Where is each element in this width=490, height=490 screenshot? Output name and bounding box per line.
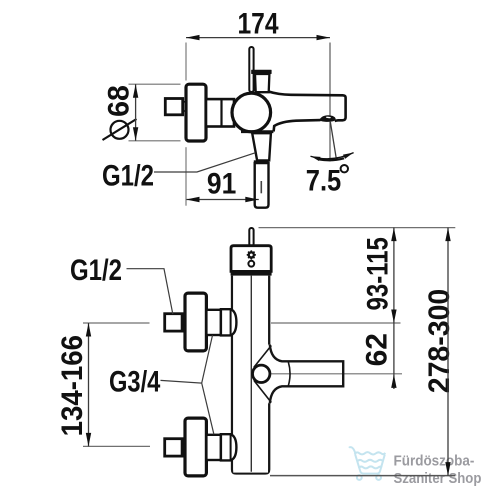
- mid extension line (upper union center): [271, 322, 401, 324]
- spout outline (top view): [269, 92, 346, 132]
- body inner line: [250, 276, 252, 472]
- cap joint band: [231, 271, 272, 275]
- svg-text:278-300: 278-300: [423, 289, 456, 394]
- G3/4 leader fork: [161, 335, 214, 434]
- nipple ticks: [183, 102, 187, 111]
- 7.5 degree angle line: [330, 121, 336, 159]
- shower outlet cone (top view): [252, 133, 271, 160]
- left extension lines 134-166: [83, 322, 150, 324]
- upper union: nut with dome: [221, 309, 237, 335]
- aerator (black lens): [319, 115, 335, 122]
- svg-text:62: 62: [361, 333, 394, 366]
- svg-text:134-166: 134-166: [56, 335, 89, 436]
- diameter symbol: [103, 119, 137, 140]
- dimension Ø68 arrows: [133, 84, 138, 98]
- wall escutcheon (top view): [186, 84, 206, 141]
- dimension 174 arrows: [186, 35, 200, 40]
- svg-text:7.5: 7.5: [306, 164, 341, 197]
- temperature gear dot: [247, 250, 256, 259]
- svg-text:93-115: 93-115: [360, 237, 394, 310]
- diverter knob flange: [251, 70, 271, 74]
- dimension 91 arrows: [186, 197, 200, 202]
- svg-text:G3/4: G3/4: [109, 365, 160, 398]
- watermark bathtub icon: [349, 447, 385, 480]
- junction arc: [288, 362, 290, 386]
- G1/2 leader (top view): [154, 153, 255, 172]
- cone slant lines: [254, 346, 271, 368]
- svg-text:Szaniter Shop: Szaniter Shop: [393, 469, 481, 486]
- cone step band: [254, 160, 269, 163]
- upper union: cylinder: [206, 310, 221, 335]
- lower union: nut with dome: [221, 434, 237, 460]
- svg-text:68: 68: [103, 85, 136, 117]
- lower union: escutcheon: [185, 418, 206, 476]
- dimension Ø68 lines: [129, 84, 181, 141]
- extension line below escutcheon: [185, 147, 187, 206]
- svg-text:G1/2: G1/2: [70, 252, 122, 286]
- shower outlet cylinder (top view): [255, 163, 269, 208]
- svg-text:91: 91: [207, 166, 236, 200]
- body column: [232, 276, 269, 474]
- cylinder divider line: [220, 99, 222, 126]
- lower union: nub: [165, 439, 182, 456]
- svg-text:G1/2: G1/2: [102, 158, 154, 192]
- svg-text:Fürdöszoba-: Fürdöszoba-: [394, 453, 475, 470]
- cap: [231, 246, 271, 272]
- diverter pin (side view): [249, 228, 253, 246]
- cartridge ball (top view): [232, 93, 271, 132]
- upper union: nub: [165, 314, 182, 331]
- G1/2 leader (side view): [127, 269, 173, 314]
- diverter ball (side view): [253, 365, 270, 382]
- dimension 91 line: [186, 199, 259, 201]
- diverter knob cup: [255, 74, 269, 92]
- ring dot: [248, 261, 254, 267]
- body ledge line: [241, 130, 273, 133]
- angle arc arrows: [311, 153, 354, 159]
- svg-text:174: 174: [237, 6, 279, 40]
- spout branch (side view): [270, 362, 343, 385]
- supply nub (top view): [165, 99, 182, 115]
- lower union: cylinder: [206, 435, 221, 460]
- upper union: escutcheon: [185, 293, 206, 351]
- bottom extension line: [270, 475, 455, 477]
- top extension line: [259, 227, 456, 229]
- diverter rod (top view): [249, 47, 253, 92]
- union cylinder (top view): [206, 99, 234, 126]
- dimension 174 line: [186, 38, 330, 162]
